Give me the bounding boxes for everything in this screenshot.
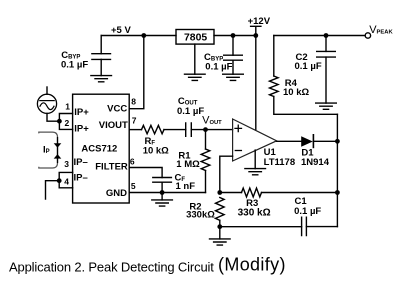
ground under CF: [152, 200, 173, 206]
wire CF bottom: [161, 182, 163, 192]
IC ACS712 box: [73, 94, 130, 203]
wire open lead from IP- node: [46, 181, 60, 199]
svg-text:0.1 µF: 0.1 µF: [295, 61, 322, 72]
svg-text:Application 2. Peak Detecting: Application 2. Peak Detecting Circuit: [9, 259, 214, 274]
wire CBYP2 top lead: [232, 36, 234, 56]
capacitor C2: [317, 51, 336, 57]
op-amp U1: [233, 119, 277, 161]
current source I: [37, 94, 56, 113]
wire C1 row left: [220, 226, 302, 228]
pin 3 wire: [59, 172, 72, 180]
svg-text:7805: 7805: [184, 33, 207, 44]
svg-text:0.1 µF: 0.1 µF: [294, 206, 321, 217]
svg-text:8: 8: [131, 97, 136, 107]
svg-text:6: 6: [130, 157, 135, 167]
wire +5V rail: [101, 35, 176, 37]
wire feedback row left: [220, 192, 242, 194]
ground under R2 node: [210, 239, 231, 245]
svg-text:VIOUT: VIOUT: [99, 120, 128, 131]
capacitor C1: [302, 217, 307, 235]
wire feedback row right: [262, 192, 338, 194]
svg-text:0.1 µF: 0.1 µF: [177, 106, 204, 117]
svg-text:ACS712: ACS712: [81, 143, 117, 154]
pin 4 wire: [59, 181, 72, 188]
wire pin6 to CF: [129, 168, 162, 178]
wire VPEAK rail: [274, 35, 365, 37]
node C2 tap: [324, 33, 329, 38]
diode D1: [301, 136, 313, 147]
node CF/GND: [160, 190, 165, 195]
svg-text:330 kΩ: 330 kΩ: [238, 207, 271, 218]
svg-text:IP–: IP–: [74, 173, 88, 184]
power flag +12V: [251, 26, 261, 35]
svg-text:1: 1: [65, 102, 70, 112]
current source lead top: [46, 87, 48, 94]
svg-text:VCC: VCC: [107, 103, 127, 114]
svg-text:5: 5: [131, 181, 136, 191]
node VOUT: [203, 127, 208, 132]
wire R4 top lead: [273, 36, 275, 77]
wire op-amp output: [277, 140, 302, 142]
wire right column: [336, 114, 338, 226]
svg-text:IP–: IP–: [74, 157, 88, 168]
svg-text:+12V: +12V: [248, 16, 271, 27]
capacitor CBYP (left): [92, 54, 111, 60]
op-amp plus sign: [235, 125, 242, 131]
ground under CBYP left: [91, 76, 112, 82]
resistor RF: [142, 125, 165, 133]
ground under op-amp: [245, 169, 266, 175]
svg-text:0.1 µF: 0.1 µF: [61, 59, 88, 70]
wire R4 bottom to right column: [274, 97, 338, 115]
wire C2 top lead: [325, 36, 327, 52]
node IP+ join: [57, 119, 62, 124]
wire COUT to VOUT node: [191, 129, 232, 131]
svg-text:4: 4: [64, 176, 69, 186]
wire C2 to ground: [325, 57, 327, 103]
node R2 bottom: [217, 224, 222, 229]
svg-text:1 MΩ: 1 MΩ: [176, 159, 200, 170]
svg-text:+5 V: +5 V: [111, 25, 131, 36]
wire diode to node: [314, 140, 337, 142]
node VPEAK terminal: [365, 33, 370, 38]
current source lead bottom: [47, 113, 59, 121]
svg-text:1N914: 1N914: [301, 157, 330, 168]
IP arrowheads: [54, 143, 62, 148]
wire pin7 to RF: [129, 129, 141, 131]
wire CBYP to ground: [100, 59, 102, 75]
ground under CBYP2: [223, 74, 244, 80]
svg-text:FILTER: FILTER: [95, 162, 128, 173]
capacitor COUT: [186, 123, 192, 136]
resistor R1: [201, 149, 210, 171]
wire CBYP2 to ground: [232, 60, 234, 74]
ground under C2: [316, 103, 337, 109]
wire R2 bottom to node: [219, 220, 221, 226]
wire ground stub R2 node: [219, 227, 221, 239]
wire IP arrow line: [57, 137, 59, 163]
wire pin5 GND row: [129, 192, 205, 194]
wire VCC column pin8: [129, 36, 144, 109]
svg-text:1 nF: 1 nF: [176, 181, 196, 192]
capacitor CF: [153, 178, 172, 183]
svg-text:10 kΩ: 10 kΩ: [283, 87, 309, 98]
svg-text:2: 2: [65, 118, 70, 128]
resistor R4: [270, 76, 279, 97]
wire 7805 gnd lead: [194, 44, 196, 74]
node +12V tap: [253, 33, 258, 38]
svg-text:GND: GND: [106, 188, 127, 199]
op-amp minus sign: [235, 150, 241, 152]
wire +12V down to op-amp V+: [255, 36, 257, 131]
IP loop bracket: [39, 132, 58, 168]
svg-text:IP+: IP+: [74, 124, 89, 135]
wire +5V corner down to CBYP: [100, 36, 102, 54]
pin 2 wire: [59, 121, 72, 129]
capacitor CBYP2: [224, 55, 243, 60]
svg-text:(Modify): (Modify): [218, 255, 286, 275]
wire RF to COUT: [164, 129, 186, 131]
node IP- join: [57, 178, 62, 183]
node feedback right: [335, 190, 340, 195]
svg-text:IP+: IP+: [74, 107, 89, 118]
node +5V/VCC: [141, 33, 146, 38]
svg-text:0.1 µF: 0.1 µF: [205, 61, 232, 72]
resistor R3: [242, 188, 262, 197]
wire 7805 output rail: [214, 35, 256, 37]
svg-text:LT1178: LT1178: [264, 157, 296, 168]
svg-text:7: 7: [132, 116, 137, 126]
regulator 7805 box: [176, 30, 214, 45]
ground under 7805: [185, 74, 206, 80]
wire op-amp V- to ground: [254, 150, 256, 169]
node CBYP2 tap: [231, 33, 236, 38]
wire R1 top lead: [205, 130, 207, 149]
node feedback left: [217, 190, 222, 195]
wire CF ground stub: [161, 193, 163, 200]
wire R1 bottom lead: [205, 171, 207, 193]
svg-text:10 kΩ: 10 kΩ: [143, 145, 169, 156]
svg-text:330kΩ: 330kΩ: [186, 210, 215, 221]
wire C1 right: [306, 226, 337, 228]
wire inverting input: [220, 156, 233, 192]
pin 1 wire: [59, 114, 72, 122]
svg-text:3: 3: [64, 159, 69, 169]
resistor R2: [216, 198, 225, 221]
node diode cathode: [335, 139, 340, 144]
